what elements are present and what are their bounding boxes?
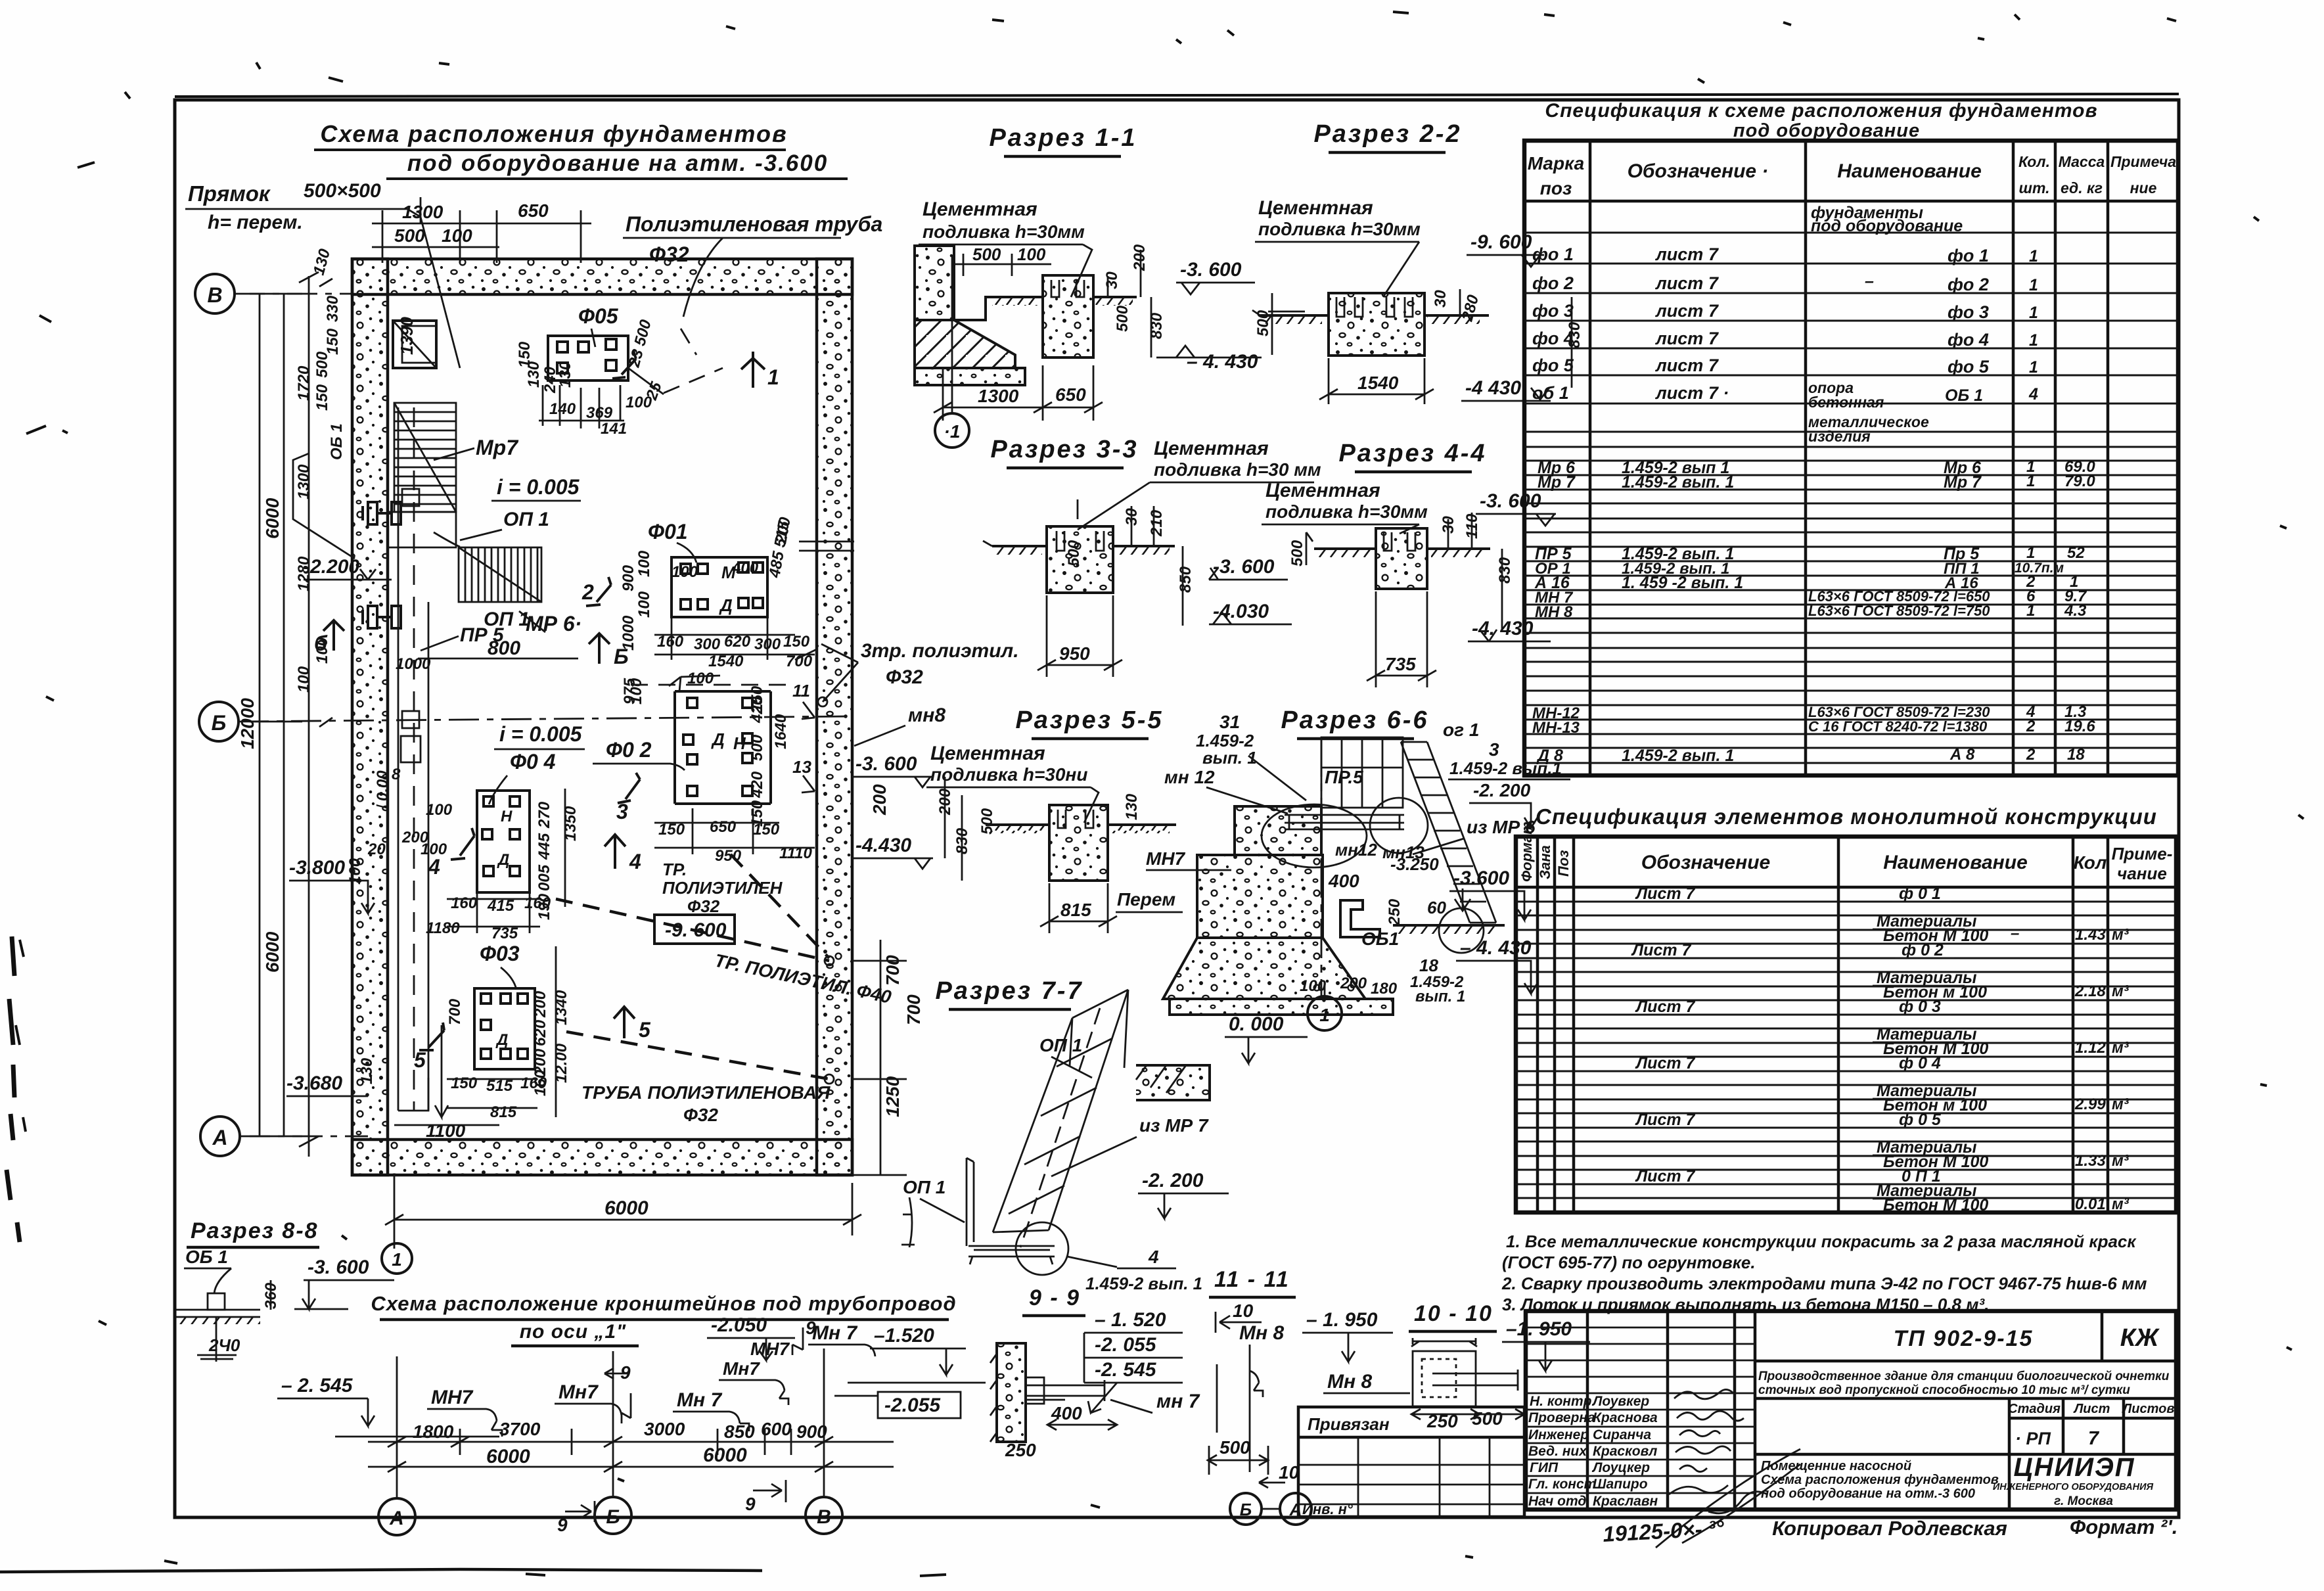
svg-text:В: В: [817, 1506, 831, 1528]
svg-text:2. Сварку производить электр: 2. Сварку производить электродами типа Э…: [1501, 1274, 2147, 1293]
svg-text:620: 620: [532, 1019, 549, 1046]
svg-text:400: 400: [1328, 871, 1359, 891]
svg-text:ОП 1: ОП 1: [903, 1177, 946, 1197]
plan wall top band: [352, 259, 852, 294]
svg-text:Разрез 6-6: Разрез 6-6: [1281, 706, 1428, 734]
svg-text:100: 100: [421, 841, 447, 858]
svg-text:Поз: Поз: [1555, 850, 1572, 877]
svg-text:Краснова: Краснова: [1593, 1410, 1658, 1425]
svg-text:ПОЛИЭТИЛЕН: ПОЛИЭТИЛЕН: [662, 878, 783, 898]
section mark Б mid: [589, 634, 610, 664]
svg-text:1: 1: [767, 365, 779, 389]
svg-text:2: 2: [581, 580, 594, 604]
svg-text:250: 250: [1386, 898, 1403, 926]
10-10 detail: [1411, 1338, 1518, 1406]
svg-text:Ф32: Ф32: [683, 1105, 718, 1125]
signature squiggles: [1656, 1389, 1800, 1548]
svg-text:Лист 7: Лист 7: [1635, 998, 1696, 1016]
svg-text:100: 100: [426, 801, 453, 819]
svg-text:подливка h=30мм: подливка h=30мм: [923, 221, 1085, 242]
6-6 embedded plate top: [1285, 815, 1404, 829]
svg-text:130: 130: [525, 361, 543, 388]
svg-text:1640: 1640: [772, 714, 790, 749]
9-9 bracket: [1026, 1380, 1105, 1401]
svg-text:4.3: 4.3: [2064, 602, 2087, 620]
right side outside dims: [869, 784, 924, 1117]
svg-text:фо 4: фо 4: [1948, 330, 1989, 350]
8-8 detail: [176, 1268, 260, 1362]
svg-text:160: 160: [520, 1074, 547, 1092]
svg-text:Лоуцкер: Лоуцкер: [1591, 1460, 1650, 1475]
axis circle 1 (bottom): [382, 1243, 412, 1274]
svg-text:Мр 7: Мр 7: [1944, 473, 1982, 492]
svg-text:1300: 1300: [978, 386, 1019, 406]
1-1 foundation block: [1043, 275, 1093, 357]
svg-text:130: 130: [358, 1057, 376, 1084]
svg-text:3700: 3700: [499, 1419, 541, 1439]
svg-text:Цементная: Цементная: [1154, 438, 1269, 459]
plan wall right band: [817, 259, 852, 1175]
1-1 bottom dims: [934, 365, 1103, 421]
svg-text:подливка h=30мм: подливка h=30мм: [1265, 501, 1428, 522]
2-2 left dim 500: [1271, 293, 1273, 355]
svg-text:Н: Н: [733, 733, 746, 753]
left dim chain verticals: [250, 272, 319, 1157]
6-6 concrete mid block: [1197, 855, 1323, 938]
svg-text:6000: 6000: [262, 931, 283, 973]
svg-text:мн8: мн8: [908, 704, 946, 726]
svg-text:100: 100: [635, 550, 653, 577]
svg-text:ОБ 1: ОБ 1: [185, 1247, 228, 1267]
svg-text:1100: 1100: [426, 1120, 466, 1141]
svg-text:150: 150: [313, 384, 331, 411]
svg-text:–1. 950: –1. 950: [1506, 1318, 1572, 1340]
axis line В: [235, 293, 352, 295]
svg-text:Разрез 7-7: Разрез 7-7: [935, 977, 1083, 1005]
svg-text:005: 005: [535, 864, 553, 891]
svg-text:ОП 1: ОП 1: [503, 509, 549, 530]
bracket scheme circles: [378, 1498, 415, 1535]
1-1 axis circle 1: [935, 413, 969, 448]
svg-text:1: 1: [2026, 544, 2035, 562]
svg-text:13: 13: [792, 757, 811, 777]
svg-text:Формат ²'.: Формат ²'.: [2070, 1515, 2177, 1538]
svg-text:Мн 8: Мн 8: [1239, 1322, 1284, 1344]
svg-text:Гл. конст: Гл. конст: [1528, 1477, 1596, 1492]
svg-text:шт.: шт.: [2019, 179, 2050, 196]
svg-text:Примеча: Примеча: [2110, 153, 2176, 170]
svg-text:Лист 7: Лист 7: [1631, 941, 1692, 959]
svg-text:Н. контр: Н. контр: [1530, 1394, 1592, 1409]
table 1 header bottom: [1524, 200, 2178, 203]
svg-text:лист 7 ·: лист 7 ·: [1654, 383, 1729, 403]
svg-text:Б: Б: [614, 645, 629, 668]
svg-text:Мр7: Мр7: [476, 436, 519, 459]
svg-text:Обозначение ·: Обозначение ·: [1628, 160, 1769, 182]
signature labels: [1528, 1394, 1658, 1509]
stairs Mp7 (upper flight): [394, 403, 456, 512]
svg-text:1300: 1300: [402, 202, 444, 222]
svg-text:мн 12: мн 12: [1164, 767, 1215, 787]
boxed elevation -9.600: [654, 915, 735, 944]
svg-text:650: 650: [518, 200, 549, 221]
1-1 footing wedge hatched: [915, 320, 1015, 368]
svg-text:445: 445: [535, 833, 553, 860]
svg-text:⊥0.00: ⊥0.00: [374, 770, 392, 815]
dims around Ф04 left: [401, 801, 580, 942]
svg-text:м³: м³: [2112, 1039, 2130, 1057]
bracket scheme dim line 2: [368, 1462, 894, 1472]
svg-text:бетонная: бетонная: [1808, 394, 1884, 411]
5-5 ground lines: [986, 823, 1049, 826]
svg-text:ТП 902-9-15: ТП 902-9-15: [1894, 1326, 2034, 1351]
svg-text:12000: 12000: [237, 698, 258, 749]
plan wall bottom band: [352, 1140, 852, 1175]
svg-text:1540: 1540: [1357, 373, 1399, 393]
svg-text:3000: 3000: [644, 1419, 685, 1439]
table 1 outer: [1524, 141, 2178, 775]
svg-text:52: 52: [2067, 544, 2085, 562]
svg-text:·1: ·1: [944, 421, 961, 442]
5-5 bottom dim 815: [1040, 883, 1117, 933]
svg-text:9 - 9: 9 - 9: [1029, 1285, 1080, 1310]
svg-text:Н: Н: [501, 808, 513, 825]
6-6 axis circle 1: [1321, 737, 1323, 996]
svg-text:5: 5: [414, 1048, 426, 1072]
svg-text:0. 000: 0. 000: [1229, 1013, 1284, 1035]
svg-text:79.0: 79.0: [2064, 473, 2095, 490]
svg-text:-3.800: -3.800: [289, 857, 345, 879]
svg-text:18: 18: [2067, 746, 2085, 764]
1-1 base slab: [915, 368, 1025, 385]
svg-text:м³: м³: [2112, 1095, 2130, 1113]
6-6 ground hatch right: [1393, 924, 1505, 927]
svg-text:6000: 6000: [703, 1444, 747, 1466]
svg-text:100: 100: [442, 225, 472, 246]
svg-text:Лист 7: Лист 7: [1635, 1054, 1696, 1072]
svg-text:975: 975: [621, 678, 639, 704]
svg-text:– 1. 950: – 1. 950: [1306, 1309, 1378, 1331]
dim ticks left of plan: [319, 279, 332, 727]
svg-text:изделия: изделия: [1808, 428, 1871, 445]
svg-text:Схема расположение кронштейнов: Схема расположение кронштейнов под трубо…: [371, 1292, 956, 1315]
svg-text:1: 1: [2026, 602, 2035, 620]
left margin scan streaks: [7, 936, 20, 1242]
svg-text:140: 140: [549, 400, 576, 418]
svg-text:Шапиро: Шапиро: [1593, 1477, 1648, 1492]
svg-text:130: 130: [557, 361, 574, 388]
svg-text:500: 500: [748, 734, 766, 761]
valve fitting 1: [363, 502, 401, 524]
svg-text:Ф32: Ф32: [687, 896, 720, 916]
left dim texts rotated: [237, 497, 283, 973]
svg-text:2.18: 2.18: [2074, 982, 2106, 1000]
svg-text:3: 3: [616, 800, 628, 823]
svg-text:60: 60: [1427, 898, 1446, 917]
table 2 header bottom: [1516, 886, 2176, 889]
svg-text:4: 4: [428, 855, 440, 879]
svg-text:-3.600: -3.600: [1453, 867, 1509, 889]
6-6 base wedge: [1163, 938, 1365, 999]
svg-text:650: 650: [1055, 384, 1086, 405]
foundation Ф05 (top): [548, 336, 628, 380]
svg-text:подливка h=30ни: подливка h=30ни: [930, 764, 1087, 785]
svg-text:ОБ 1: ОБ 1: [328, 423, 346, 460]
svg-text:815: 815: [490, 1103, 517, 1121]
6-6 base slab: [1170, 999, 1393, 1015]
svg-text:Д: Д: [711, 729, 725, 749]
sheet frame: [175, 100, 2179, 1517]
elevation -2.055 right: [878, 1392, 961, 1418]
svg-text:1: 1: [2026, 473, 2035, 490]
svg-text:500: 500: [313, 351, 331, 378]
svg-text:1.43: 1.43: [2075, 926, 2106, 944]
стадия лист листов table: [1755, 1398, 2176, 1510]
svg-text:С 16 ГОСТ 8240-72 l=1380: С 16 ГОСТ 8240-72 l=1380: [1808, 718, 1988, 735]
svg-text:фо 3: фо 3: [1948, 302, 1989, 322]
left trench channel: [398, 407, 428, 1111]
svg-text:250: 250: [1005, 1440, 1036, 1460]
svg-text:ф 0 4: ф 0 4: [1899, 1054, 1941, 1072]
svg-text:Мр 7: Мр 7: [1538, 473, 1576, 492]
svg-text:-2. 200: -2. 200: [1473, 780, 1531, 800]
svg-text:подливка h=30мм: подливка h=30мм: [1258, 219, 1421, 239]
svg-text:700: 700: [882, 955, 903, 986]
svg-text:8: 8: [392, 766, 401, 783]
svg-text:850: 850: [724, 1421, 755, 1442]
3-3 rebar marks: [1057, 531, 1104, 551]
svg-text:КЖ: КЖ: [2120, 1324, 2160, 1352]
svg-text:-3.680: -3.680: [286, 1072, 342, 1094]
svg-text:1.459-2 вып. 1: 1.459-2 вып. 1: [1085, 1274, 1202, 1293]
section mark 11 arrows right: [802, 702, 815, 793]
plan wall left band: [352, 259, 388, 1175]
frame top thick scan line: [175, 94, 2179, 97]
table 2 column lines: [1538, 837, 2108, 1212]
svg-text:1300: 1300: [295, 464, 313, 499]
11-11 vertical + bracket: [1250, 1345, 1263, 1472]
section mark 6 left: [323, 620, 344, 651]
svg-text:Мн7: Мн7: [723, 1358, 760, 1379]
7-7 inclined ladder: [993, 990, 1128, 1247]
svg-text:ОП 1: ОП 1: [1039, 1035, 1082, 1055]
svg-text:150: 150: [451, 1074, 478, 1092]
section mark 5 left: [419, 1023, 444, 1050]
svg-text:Лист 7: Лист 7: [1635, 1167, 1696, 1186]
svg-text:м³: м³: [2112, 926, 2130, 944]
svg-text:МН7: МН7: [1146, 848, 1186, 869]
svg-text:мн12: мн12: [1335, 840, 1377, 860]
svg-text:9: 9: [557, 1515, 568, 1535]
svg-text:Листов: Листов: [2122, 1402, 2175, 1416]
svg-text:141: 141: [601, 420, 627, 438]
svg-text:– 4. 430: – 4. 430: [1187, 351, 1258, 373]
svg-text:Ф01: Ф01: [648, 520, 688, 543]
section mark 1 (top): [741, 352, 765, 388]
svg-text:150: 150: [324, 328, 342, 355]
svg-text:210: 210: [1148, 509, 1166, 537]
svg-text:-3.250: -3.250: [1390, 854, 1439, 874]
svg-text:2Ч0: 2Ч0: [208, 1335, 240, 1355]
svg-text:– 4. 430: – 4. 430: [1460, 937, 1532, 959]
svg-text:Инв. н°: Инв. н°: [1302, 1501, 1353, 1517]
svg-text:вып. 1: вып. 1: [1415, 988, 1465, 1005]
svg-text:900: 900: [796, 1421, 827, 1442]
section mark 2: [586, 577, 611, 606]
1-1 step ledge: [954, 297, 1043, 320]
6-6 inclined ladder: [1401, 742, 1496, 923]
svg-text:1.459-2 вып. 1: 1.459-2 вып. 1: [1622, 747, 1734, 765]
title block outer: [1526, 1311, 2176, 1510]
ОП1 bracket lower right of plan: [901, 1197, 915, 1247]
7-7 callout circle: [1016, 1222, 1068, 1275]
svg-text:850: 850: [1177, 566, 1195, 593]
dashed pipe Ф40: [556, 899, 829, 961]
svg-text:4: 4: [2028, 385, 2038, 404]
svg-text:700: 700: [446, 998, 464, 1025]
svg-text:Красковл: Красковл: [1593, 1444, 1657, 1459]
dashed line to wall top: [664, 368, 723, 393]
svg-text:ГИП: ГИП: [1530, 1460, 1559, 1475]
svg-text:100: 100: [672, 563, 698, 581]
signature area rows: [1526, 1327, 1755, 1493]
svg-text:Д: Д: [495, 1031, 508, 1049]
svg-text:ТРУБА ПОЛИЭТИЛЕНОВАЯ: ТРУБА ПОЛИЭТИЛЕНОВАЯ: [581, 1082, 831, 1103]
svg-text:Разрез 2-2: Разрез 2-2: [1313, 120, 1461, 148]
bottom scan artifact line: [0, 1569, 762, 1572]
1-1 ground line left: [986, 296, 1043, 298]
svg-text:Краславн: Краславн: [1593, 1494, 1658, 1509]
svg-text:-4.030: -4.030: [1213, 601, 1269, 622]
1-1 rebar U marks: [1051, 280, 1084, 297]
svg-text:Цементная: Цементная: [1265, 480, 1380, 501]
svg-text:Инженер: Инженер: [1528, 1427, 1589, 1442]
svg-text:м³: м³: [2112, 982, 2130, 1000]
svg-text:ф 0 2: ф 0 2: [1902, 941, 1944, 959]
svg-text:Нач отд: Нач отд: [1528, 1494, 1586, 1509]
svg-text:-3. 600: -3. 600: [1213, 556, 1275, 578]
svg-text:3тр. полиэтил.: 3тр. полиэтил.: [861, 640, 1019, 662]
svg-text:-2. 055: -2. 055: [1095, 1334, 1157, 1356]
dims around Ф01: [620, 515, 813, 712]
2-2 ground lines: [1260, 314, 1329, 317]
svg-text:ОБ 1: ОБ 1: [1945, 386, 1983, 405]
underline accents in t2: [1873, 902, 1965, 1199]
svg-text:под оборудование: под оборудование: [1811, 217, 1963, 235]
svg-text:Разрез 4-4: Разрез 4-4: [1338, 440, 1486, 467]
svg-text:2.99: 2.99: [2074, 1095, 2106, 1113]
axis circle Б (mid): [199, 702, 239, 741]
svg-text:1.459-2 вып. 1: 1.459-2 вып. 1: [1622, 473, 1734, 492]
svg-text:100: 100: [295, 666, 313, 693]
7-7 wall stub with speckle: [1136, 1065, 1210, 1100]
svg-text:Помещенние насосной: Помещенние насосной: [1761, 1459, 1911, 1473]
svg-text:под оборудование на атм. -3.: под оборудование на атм. -3.600: [407, 150, 828, 176]
svg-text:Ф32: Ф32: [886, 666, 923, 688]
svg-text:лист 7: лист 7: [1654, 244, 1720, 264]
svg-text:Разрез 5-5: Разрез 5-5: [1015, 706, 1163, 734]
table 2 outer: [1516, 837, 2176, 1212]
svg-text:200: 200: [532, 990, 549, 1018]
svg-text:Разрез 3-3: Разрез 3-3: [990, 436, 1138, 463]
svg-text:Спецификация элементов монол: Спецификация элементов монолитной констр…: [1536, 804, 2157, 829]
svg-text:фо 5: фо 5: [1948, 357, 1990, 377]
svg-text:30: 30: [1103, 271, 1121, 289]
svg-text:м³: м³: [2112, 1152, 2130, 1170]
top dims above plan: [372, 197, 591, 263]
svg-text:лист 7: лист 7: [1654, 301, 1720, 321]
svg-text:Марка: Марка: [1528, 153, 1584, 173]
svg-text:Производственное здание для: Производственное здание для станции биол…: [1758, 1370, 2170, 1383]
svg-text:А: А: [389, 1508, 404, 1529]
svg-text:г. Москва: г. Москва: [2054, 1494, 2113, 1508]
axis circle А (bottom): [200, 1117, 240, 1156]
signature area verticals: [1587, 1311, 1755, 1510]
svg-text:5: 5: [639, 1018, 651, 1042]
ОБ1 label with leader (upper left): [293, 453, 355, 559]
leader to sump: [407, 209, 460, 368]
6-6 anchor channel piece: [1340, 900, 1380, 937]
svg-text:подливка h=30 мм: подливка h=30 мм: [1154, 459, 1321, 480]
svg-text:i = 0.005: i = 0.005: [497, 475, 580, 499]
svg-text:Ф0 2: Ф0 2: [606, 738, 652, 762]
svg-text:1: 1: [2029, 276, 2038, 294]
svg-text:ф 0 3: ф 0 3: [1899, 998, 1941, 1016]
svg-text:Цементная: Цементная: [930, 743, 1045, 764]
svg-text:4: 4: [629, 850, 641, 873]
svg-text:200: 200: [1131, 244, 1149, 271]
svg-text:-3. 600: -3. 600: [1180, 259, 1242, 281]
svg-text:Д 8: Д 8: [1536, 747, 1563, 765]
svg-text:Масса: Масса: [2059, 153, 2105, 170]
svg-text:Зана: Зана: [1537, 845, 1553, 879]
7-7 bottom channel: [967, 1158, 1055, 1264]
svg-text:ние: ние: [2130, 179, 2157, 196]
svg-text:-3. 600: -3. 600: [308, 1257, 369, 1278]
5-5 rebar marks: [1058, 810, 1093, 828]
svg-text:Лист 7: Лист 7: [1635, 885, 1696, 903]
section mark 4 left: [451, 828, 474, 860]
svg-text:Сиранча: Сиранча: [1593, 1427, 1651, 1442]
1-1 left wall block: [915, 246, 954, 320]
4-4 bottom dim 735: [1367, 591, 1436, 687]
svg-text:6000: 6000: [262, 497, 283, 539]
svg-text:фо 2: фо 2: [1948, 275, 1989, 294]
svg-text:200: 200: [1340, 975, 1367, 992]
svg-text:1720: 1720: [295, 365, 313, 401]
svg-text:ед. кг: ед. кг: [2061, 179, 2103, 196]
svg-text:Ф0 4: Ф0 4: [510, 750, 556, 773]
svg-text:9: 9: [620, 1362, 631, 1383]
svg-text:ТР.: ТР.: [662, 860, 687, 879]
svg-text:160: 160: [524, 894, 551, 912]
svg-text:–: –: [1865, 272, 1874, 290]
svg-text:Лоувкер: Лоувкер: [1591, 1394, 1649, 1409]
svg-text:лист 7: лист 7: [1654, 273, 1720, 293]
svg-text:10.7п.м: 10.7п.м: [2015, 561, 2064, 576]
pipe sleeves through right wall top: [799, 542, 854, 551]
svg-text:об 1: об 1: [1532, 383, 1569, 403]
svg-text:400: 400: [731, 559, 759, 577]
svg-text:1: 1: [2029, 247, 2038, 265]
bracket scheme dim line 1: [368, 1429, 894, 1455]
svg-text:сточных вод пропускной спос: сточных вод пропускной способностью 10 т…: [1758, 1383, 2130, 1397]
svg-text:Формат: Формат: [1518, 821, 1535, 882]
svg-text:1: 1: [2029, 331, 2038, 350]
svg-text:Д: Д: [497, 851, 509, 869]
plan inner face rect: [388, 294, 817, 1140]
svg-text:вып. 1: вып. 1: [1202, 748, 1257, 768]
